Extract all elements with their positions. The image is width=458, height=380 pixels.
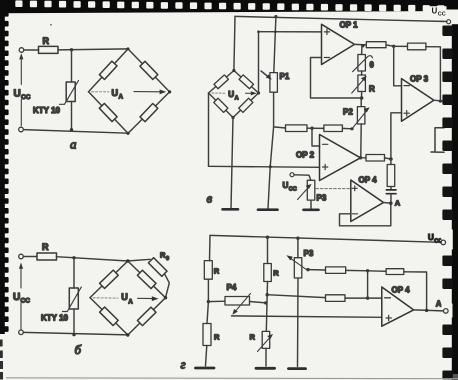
node junction: [72, 256, 75, 259]
resistor R1 (to OP2 inverting): [286, 125, 308, 132]
svg-text:R: R: [43, 36, 50, 46]
bridge v resistor top-left: [214, 75, 228, 89]
wire rail2 to OP1 +: [259, 31, 322, 33]
node OP2 output: [359, 156, 362, 159]
wire: [390, 187, 392, 190]
UA dashed lead: [92, 91, 110, 93]
wire P2 top stub: [360, 98, 362, 107]
capacitor C1: [386, 189, 396, 191]
border top band: [0, 0, 458, 13]
wire: [346, 269, 368, 271]
wire P1 top from rail1: [274, 17, 276, 73]
node crossing: [269, 165, 272, 168]
wire OP4 feedback loop: [340, 203, 391, 226]
wire: [71, 102, 73, 130]
wire bridge bottom corner down: [231, 118, 233, 209]
wire OP3 output: [434, 100, 445, 101]
resistor R3 (OP2 out to node): [366, 155, 385, 162]
wire supply rail: [211, 235, 442, 242]
wire: [23, 256, 37, 258]
potentiometer P3 (circuit v): [307, 180, 315, 200]
node P3 wiper tap: [306, 268, 309, 271]
svg-text:θ: θ: [370, 61, 374, 70]
wire P3 bottom to ground: [297, 278, 300, 367]
node N2: [366, 296, 369, 299]
bridge a outline: [89, 49, 129, 92]
wire node down to R4: [390, 159, 392, 165]
node crossing rail2: [274, 30, 277, 33]
svg-text:U: U: [14, 89, 21, 100]
wire P1 bottom to resistor row: [274, 92, 286, 128]
svg-text:A: A: [235, 95, 239, 101]
svg-text:U: U: [428, 233, 434, 242]
white pocket right for Ucc terminal: [441, 230, 453, 250]
wire: [266, 282, 267, 332]
wire rail end redrawn: [436, 241, 441, 243]
thermistor theta: [358, 55, 366, 72]
svg-text:A: A: [436, 300, 442, 309]
resistor R6 (OP3 feedback): [408, 43, 426, 50]
svg-text:R: R: [250, 333, 256, 342]
bridge v resistor top-right: [239, 75, 253, 89]
node: [266, 293, 269, 296]
wire: [73, 309, 75, 335]
resistor at border (partially hidden): [431, 128, 444, 153]
wire: [207, 302, 208, 324]
wire: [206, 346, 207, 366]
svg-text:R: R: [369, 85, 375, 94]
wire to P3: [294, 175, 311, 181]
wire: [385, 158, 391, 159]
wire R2 to P2 wiper: [342, 127, 352, 129]
wire: [207, 279, 209, 301]
UA arrow: [134, 91, 162, 93]
svg-text:0: 0: [166, 256, 169, 262]
resistor R (series): [39, 46, 59, 53]
svg-text:R: R: [214, 333, 220, 342]
node junction: [72, 333, 75, 336]
wire OP4 output: [414, 310, 443, 311]
wire: [265, 348, 267, 366]
svg-text:OP 3: OP 3: [410, 75, 429, 84]
svg-text:R: R: [273, 269, 279, 278]
node junction: [70, 48, 73, 51]
terminal Ucc top right redrawn: [447, 20, 451, 24]
border right blocks: [442, 26, 452, 380]
wire row2 from middle branch: [267, 295, 325, 298]
op-amp OP2: [320, 135, 361, 181]
svg-text:OP 1: OP 1: [340, 21, 359, 30]
potentiometer P2: [357, 107, 365, 124]
wire OP2 - drop: [312, 128, 320, 146]
wire: [386, 45, 394, 46]
wire: [394, 45, 408, 47]
svg-text:U: U: [283, 181, 289, 190]
potentiometer P3 (circuit g): [294, 258, 302, 278]
wire: [345, 297, 368, 299]
bridge a resistor bottom-left: [99, 103, 117, 121]
wire to OP4 - input: [368, 297, 382, 299]
ground (left branch): [196, 367, 215, 370]
svg-text:A: A: [128, 299, 133, 305]
wire N5 down to OP3 -: [394, 46, 402, 86]
svg-text:OP 2: OP 2: [296, 151, 315, 160]
node: [439, 100, 442, 103]
wire bridge right corner up to rail2: [258, 32, 260, 93]
svg-text:OP 4: OP 4: [359, 176, 378, 185]
bridge a resistor top-right: [140, 61, 158, 79]
svg-text:б: б: [75, 342, 82, 357]
terminal Ucc right: [441, 240, 446, 245]
Ucc voltage arrow: [19, 53, 23, 59]
wire: [307, 127, 324, 129]
resistor feedback (row1 right): [386, 269, 404, 275]
border top band holes: [15, 0, 444, 11]
resistor R (left bottom): [203, 324, 211, 346]
svg-text:R: R: [42, 242, 49, 252]
resistor Ro parallel branch: [128, 259, 150, 261]
node bridge corners: [126, 259, 129, 262]
ground (P3): [304, 209, 319, 212]
UA dashed lead: [212, 92, 226, 94]
resistor R5 (OP1 out): [366, 42, 386, 48]
thermistor R (middle, arrow): [262, 331, 270, 348]
UA dashed lead: [93, 297, 118, 299]
svg-text:R: R: [214, 267, 220, 276]
svg-text:U: U: [13, 292, 20, 303]
wire OP4g output end redrawn: [437, 310, 443, 312]
wire P4 wiper to OP4 +: [232, 316, 382, 317]
wire bottom rail: [23, 332, 128, 335]
wire bottom rail: [24, 130, 129, 134]
bridge v resistor bottom-left: [214, 98, 228, 112]
wire rail to bridge top: [234, 16, 235, 70]
svg-text:в: в: [207, 191, 213, 206]
wire wiper to R row1: [308, 269, 326, 271]
svg-text:KTY 10: KTY 10: [33, 106, 61, 115]
wire: [390, 194, 392, 204]
node: [350, 127, 353, 130]
svg-text:P4: P4: [227, 283, 237, 292]
node: [207, 300, 210, 303]
resistor R (middle): [264, 264, 272, 282]
wire to OP2 + input: [209, 166, 320, 167]
svg-text:OP 4: OP 4: [392, 285, 411, 294]
node: [257, 30, 260, 33]
bridge b outline: [90, 261, 128, 298]
wire: [368, 270, 387, 273]
wire P3 bottom: [310, 200, 312, 208]
terminal A redrawn: [444, 309, 449, 314]
svg-text:P2: P2: [343, 108, 353, 117]
svg-text:CC: CC: [438, 12, 446, 18]
node: [264, 301, 267, 304]
node rail junctions: [266, 236, 269, 239]
resistor row2 (to OP4 -): [326, 295, 346, 302]
wire rail1 end redrawn over pocket: [440, 20, 447, 22]
trimmer R (in feedback chain): [358, 75, 366, 92]
svg-text:CC: CC: [21, 94, 31, 101]
wire node to OP3 +: [391, 113, 402, 159]
thermistor KTY 10: [66, 82, 75, 102]
svg-text:CC: CC: [21, 298, 31, 305]
Ucc voltage arrow: [19, 263, 23, 269]
terminal bottom-left: [19, 127, 24, 132]
wire: [24, 49, 39, 51]
terminal bottom-left: [19, 330, 24, 335]
potentiometer P1: [270, 73, 278, 93]
potentiometer P4: [225, 297, 250, 306]
node N1: [366, 269, 369, 272]
speck: [50, 24, 52, 26]
svg-text:P1: P1: [280, 72, 290, 81]
op-amp OP4 (circuit g): [382, 287, 414, 326]
border left lower dashes: [0, 340, 3, 380]
wire P2 bottom to OP2 output: [360, 124, 362, 158]
wire supply rail top: [235, 16, 447, 21]
wire bridge left corner down: [208, 93, 210, 166]
bridge b resistor top-right: [137, 270, 156, 288]
wire OP1 output: [355, 43, 367, 46]
node OP1 out: [361, 44, 364, 47]
svg-text:U: U: [112, 88, 119, 98]
white pocket top-right for Ucc: [444, 10, 458, 25]
wire feedback to output: [404, 272, 427, 311]
svg-text:A: A: [119, 95, 124, 101]
ground (middle branch): [256, 367, 275, 370]
node P1 feed on rail1: [274, 15, 277, 18]
resistor R (series): [37, 253, 57, 260]
wire: [71, 50, 73, 82]
node A: [389, 201, 393, 205]
svg-text:CC: CC: [434, 238, 442, 244]
svg-text:KTY 10: KTY 10: [41, 313, 69, 322]
resistor row1 (to summing node): [326, 267, 346, 274]
border bottom faint line: [6, 377, 458, 380]
wire P1 bottom to ground: [268, 127, 274, 209]
wire: [58, 49, 128, 50]
wire OP1 - feedback loop: [311, 58, 362, 99]
wire OP4 output to node A: [384, 202, 391, 205]
terminal top-left supply +: [19, 48, 24, 53]
bridge a resistor top-left: [99, 61, 117, 79]
op-amp OP3: [402, 79, 434, 122]
border left strip: [0, 0, 5, 334]
bridge v outline: [209, 71, 234, 94]
node junction: [70, 128, 73, 131]
bridge a resistor bottom-right: [140, 103, 158, 121]
terminal Ucc right redrawn: [441, 240, 446, 245]
wire chain bottom: [361, 92, 363, 99]
UA arrow: [138, 297, 154, 299]
svg-text:U: U: [228, 90, 234, 99]
bridge v resistor bottom-right: [239, 98, 253, 112]
wire left branch top: [209, 235, 212, 260]
svg-text:P3: P3: [317, 194, 327, 203]
op-amp OP4 (circuit v): [351, 180, 384, 222]
svg-text:г: г: [181, 356, 186, 371]
svg-text:U: U: [121, 292, 128, 302]
white pocket right for A terminal: [442, 304, 453, 318]
op-amp OP1: [322, 24, 355, 64]
node N4: [389, 157, 393, 161]
resistor R (left top): [204, 261, 212, 280]
terminal top-left supply: [19, 254, 24, 259]
wire to P4: [208, 300, 225, 302]
node N5: [392, 45, 395, 48]
svg-text:U: U: [432, 7, 438, 16]
wire P3 branch top: [297, 238, 299, 258]
resistor R4 (vertical): [387, 165, 395, 187]
ground (bridge bottom): [223, 208, 239, 211]
bridge b resistor bottom-left: [100, 307, 119, 325]
node feedback join: [425, 309, 428, 312]
wire: [57, 257, 128, 261]
svg-text:P3: P3: [304, 249, 314, 258]
svg-text:A: A: [395, 199, 401, 208]
wire R6 to OP3 out: [426, 47, 441, 101]
wire N1-N2 vertical: [367, 271, 369, 298]
wire middle branch top: [267, 237, 269, 263]
bridge b resistor bottom-right: [137, 307, 156, 325]
wire: [73, 258, 75, 288]
wire: [361, 157, 367, 159]
terminal A: [444, 309, 449, 314]
node junction between R1 R2: [310, 127, 313, 130]
border right solid column: [452, 0, 458, 374]
thermistor KTY 10: [69, 288, 78, 309]
wire OP4 + input from P3 wiper: [316, 188, 351, 190]
UA arrow: [246, 92, 253, 94]
bridge b resistor top-left: [100, 270, 119, 288]
wire down to thermistor: [361, 46, 363, 55]
ground (P3 branch): [289, 367, 306, 370]
node bridge corners: [127, 47, 130, 50]
resistor R2: [324, 125, 343, 132]
terminal Ucc top right: [447, 20, 451, 24]
wire P4 right: [250, 302, 266, 303]
node bridge v corners: [232, 69, 235, 72]
node feedback rail: [360, 96, 364, 100]
svg-text:CC: CC: [289, 186, 297, 192]
ground (under P1): [258, 208, 278, 211]
svg-text:а: а: [70, 137, 77, 152]
wire: [361, 71, 363, 75]
terminal Ucc (for P3): [290, 173, 294, 177]
